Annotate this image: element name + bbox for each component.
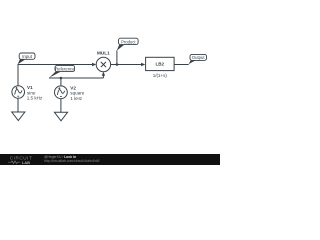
wire bbox=[102, 74, 104, 78]
ground (V2) bbox=[54, 112, 67, 121]
block LB2 bbox=[146, 57, 175, 78]
svg-text:1/(1+s): 1/(1+s) bbox=[153, 73, 168, 78]
wire bbox=[17, 98, 19, 112]
wire bbox=[116, 51, 118, 65]
voltage source V1 bbox=[12, 86, 25, 99]
svg-text:1 kHz: 1 kHz bbox=[70, 96, 82, 101]
node junction V2-reference bbox=[60, 77, 63, 80]
node arrow into MUL1 bottom bbox=[102, 72, 105, 76]
footer bar bbox=[0, 154, 220, 165]
svg-text:http://circuitlab.com/circuit/: http://circuitlab.com/circuit/4czbv6n8/ bbox=[44, 159, 99, 163]
svg-text:V2: V2 bbox=[70, 85, 76, 90]
svg-text:Input: Input bbox=[22, 54, 33, 59]
svg-text:MUL1: MUL1 bbox=[97, 50, 110, 55]
svg-text:Reference: Reference bbox=[55, 66, 75, 71]
label Product bbox=[117, 38, 138, 50]
wire bbox=[60, 78, 62, 86]
svg-text:Output: Output bbox=[192, 55, 205, 60]
multiplier MUL1 bbox=[96, 50, 110, 71]
logo CircuitLab bbox=[8, 156, 32, 165]
wire bbox=[49, 77, 103, 79]
label Input bbox=[18, 53, 35, 64]
wire bbox=[111, 64, 143, 66]
wire bbox=[174, 64, 189, 66]
V2 labels bbox=[70, 85, 84, 101]
ground (V1) bbox=[12, 112, 25, 121]
svg-text:sine: sine bbox=[27, 90, 36, 95]
svg-text:LB2: LB2 bbox=[156, 62, 165, 67]
node junction product bbox=[116, 63, 119, 66]
svg-text:V1: V1 bbox=[27, 85, 33, 90]
wire bbox=[18, 65, 93, 86]
svg-text:square: square bbox=[70, 91, 84, 96]
V1 labels bbox=[27, 85, 43, 101]
voltage source V2 bbox=[55, 86, 68, 99]
wire bbox=[60, 99, 62, 113]
label Reference bbox=[49, 65, 75, 77]
svg-text:1.5 kHz: 1.5 kHz bbox=[27, 96, 43, 101]
footer credit text bbox=[44, 155, 99, 163]
svg-text:Product: Product bbox=[121, 39, 136, 44]
svg-text:LAB: LAB bbox=[22, 160, 30, 165]
label Output bbox=[189, 54, 207, 64]
node arrow into MUL1 left bbox=[92, 63, 96, 66]
node arrow into LB2 bbox=[141, 63, 145, 66]
